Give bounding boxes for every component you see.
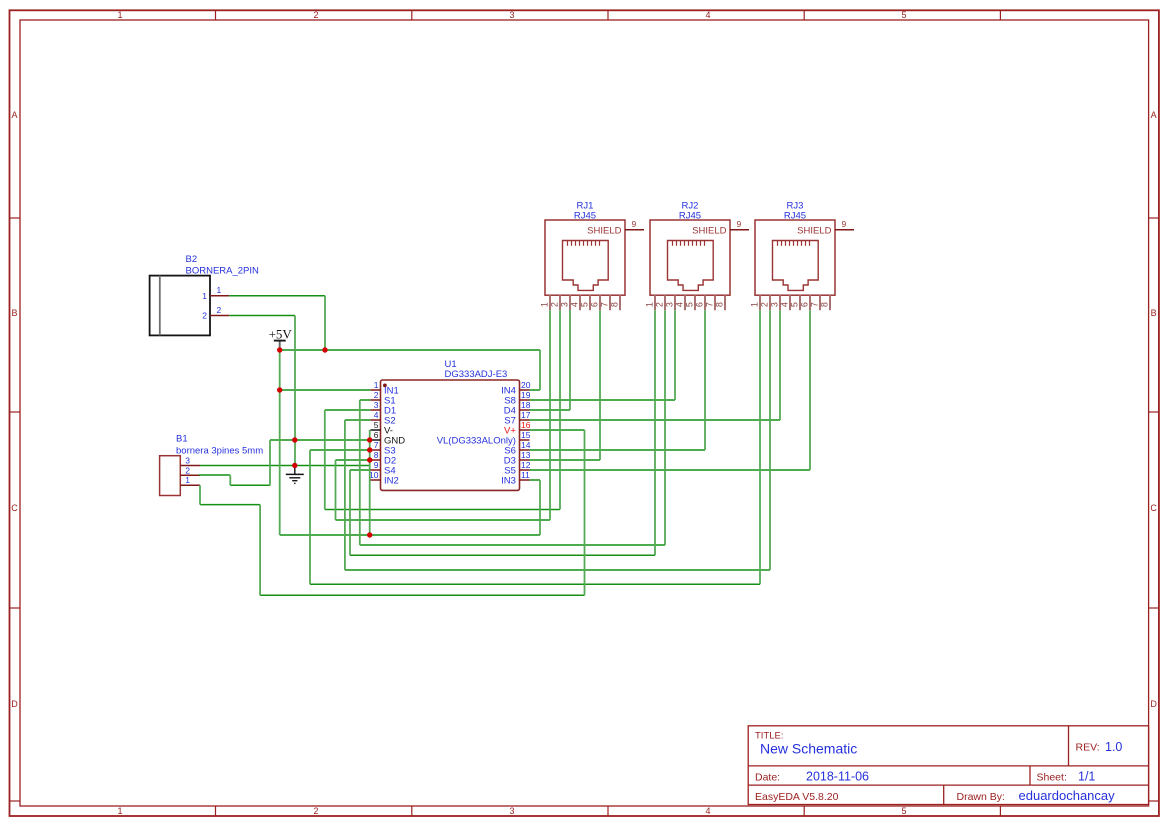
svg-text:1: 1 <box>374 380 379 390</box>
svg-text:New Schematic: New Schematic <box>760 741 857 757</box>
svg-text:D: D <box>1150 699 1157 709</box>
ground <box>286 466 304 484</box>
pin 7 (S3) of U1 <box>370 440 395 457</box>
svg-text:2: 2 <box>313 10 318 20</box>
wire <box>809 310 811 470</box>
svg-text:1: 1 <box>117 806 122 816</box>
svg-text:3: 3 <box>374 400 379 410</box>
connector RJ3 (RJ45) <box>755 220 835 295</box>
wire <box>260 594 584 596</box>
wire <box>200 504 260 506</box>
svg-text:IN3: IN3 <box>501 476 516 487</box>
svg-text:3: 3 <box>559 302 569 307</box>
connector B2 <box>150 276 210 336</box>
svg-text:6: 6 <box>374 430 379 440</box>
svg-text:IN2: IN2 <box>384 476 399 487</box>
pin 8 of RJ2 <box>714 295 725 310</box>
wire <box>530 429 585 431</box>
pin 5 of RJ1 <box>579 295 590 310</box>
svg-text:SHIELD: SHIELD <box>587 225 621 236</box>
wire <box>530 479 541 481</box>
pin 7 of RJ1 <box>599 295 610 310</box>
wire <box>530 389 541 391</box>
pin 4 of RJ1 <box>569 295 580 310</box>
svg-text:17: 17 <box>521 410 531 420</box>
pin 5 of RJ2 <box>684 295 695 310</box>
pin 14 (S6) of U1 <box>504 440 530 457</box>
wire <box>309 450 311 584</box>
svg-text:1: 1 <box>644 302 654 307</box>
svg-text:EasyEDA V5.8.20: EasyEDA V5.8.20 <box>755 791 839 803</box>
svg-text:4: 4 <box>674 302 684 307</box>
pin 2 of RJ1 <box>549 295 560 310</box>
wire <box>336 459 370 461</box>
svg-text:4: 4 <box>374 410 379 420</box>
svg-text:D: D <box>11 699 18 709</box>
svg-text:7: 7 <box>599 302 609 307</box>
wire <box>530 409 571 411</box>
svg-text:B2: B2 <box>186 254 198 265</box>
pin 7 of RJ2 <box>704 295 715 310</box>
wire <box>229 475 231 485</box>
svg-text:1: 1 <box>202 291 207 301</box>
pin 11 (IN3) of U1 <box>501 470 530 487</box>
svg-text:A: A <box>11 110 17 120</box>
pin 8 (D2) of U1 <box>370 450 396 467</box>
wire <box>200 465 370 467</box>
pin 8 of RJ3 <box>819 295 830 310</box>
svg-text:20: 20 <box>521 380 531 390</box>
svg-text:8: 8 <box>714 302 724 307</box>
svg-text:5: 5 <box>901 806 906 816</box>
wire <box>324 410 326 510</box>
svg-text:Sheet:: Sheet: <box>1037 771 1067 783</box>
pin 1 of RJ1 <box>539 295 550 310</box>
pin 6 (GND) of U1 <box>370 430 405 447</box>
wire <box>325 409 371 411</box>
svg-text:RJ45: RJ45 <box>784 210 806 221</box>
svg-text:16: 16 <box>521 420 531 430</box>
svg-text:5: 5 <box>684 302 694 307</box>
svg-text:1: 1 <box>217 285 222 295</box>
wire <box>369 430 371 535</box>
svg-text:2: 2 <box>185 465 190 475</box>
svg-text:DG333ADJ-E3: DG333ADJ-E3 <box>445 369 508 380</box>
svg-text:C: C <box>1150 503 1157 513</box>
wire <box>335 460 337 520</box>
svg-text:19: 19 <box>521 390 531 400</box>
svg-text:eduardochancay: eduardochancay <box>1019 788 1116 803</box>
wire <box>779 310 781 420</box>
pin 20 (IN4) of U1 <box>501 380 531 397</box>
wire <box>280 389 371 391</box>
svg-text:5: 5 <box>901 10 906 20</box>
svg-text:9: 9 <box>374 460 379 470</box>
wire <box>229 295 325 297</box>
wire <box>539 480 541 535</box>
pin 1 (IN1) of U1 <box>370 380 398 397</box>
wire <box>230 484 270 486</box>
pin 7 of RJ3 <box>809 295 820 310</box>
wire <box>199 485 201 504</box>
svg-text:18: 18 <box>521 400 531 410</box>
svg-text:5: 5 <box>789 302 799 307</box>
junction <box>277 387 282 392</box>
svg-text:BORNERA_2PIN: BORNERA_2PIN <box>186 265 260 276</box>
wire <box>704 310 706 450</box>
power flag +5V <box>269 327 293 350</box>
wire <box>310 583 760 585</box>
wire <box>664 310 666 545</box>
wire <box>280 534 540 536</box>
svg-text:1: 1 <box>185 475 190 485</box>
wire <box>559 310 561 509</box>
svg-text:2: 2 <box>549 302 559 307</box>
svg-text:+5V: +5V <box>269 327 293 342</box>
pin 1 of RJ2 <box>644 295 655 310</box>
svg-text:2: 2 <box>374 390 379 400</box>
svg-text:1: 1 <box>539 302 549 307</box>
svg-text:6: 6 <box>589 302 599 307</box>
svg-text:REV:: REV: <box>1076 742 1100 754</box>
wire <box>530 469 811 471</box>
svg-text:5: 5 <box>579 302 589 307</box>
svg-text:1.0: 1.0 <box>1105 740 1122 754</box>
pin 9 (SHIELD) <box>797 219 854 236</box>
wire <box>350 554 655 556</box>
svg-text:6: 6 <box>799 302 809 307</box>
wire <box>549 310 551 520</box>
junction <box>367 457 372 462</box>
junction <box>367 437 372 442</box>
connector B1 <box>160 456 181 496</box>
svg-text:7: 7 <box>704 302 714 307</box>
wire <box>530 399 676 401</box>
pin 6 of RJ3 <box>799 295 810 310</box>
svg-text:1: 1 <box>117 10 122 20</box>
svg-text:13: 13 <box>521 450 531 460</box>
wire <box>530 419 781 421</box>
wire <box>259 505 261 596</box>
wire <box>539 350 541 390</box>
svg-text:14: 14 <box>521 440 531 450</box>
wire <box>360 399 371 401</box>
pin 2 of RJ2 <box>654 295 665 310</box>
svg-text:RJ45: RJ45 <box>574 210 596 221</box>
svg-text:Date:: Date: <box>755 771 780 783</box>
wire <box>530 449 706 451</box>
wire <box>344 420 346 570</box>
svg-text:8: 8 <box>609 302 619 307</box>
wire <box>599 310 601 460</box>
svg-text:7: 7 <box>809 302 819 307</box>
pin 12 (S5) of U1 <box>504 460 530 477</box>
wire <box>280 349 540 351</box>
svg-text:11: 11 <box>521 470 530 480</box>
svg-text:A: A <box>1151 110 1157 120</box>
pin 2 of B1 <box>180 465 200 475</box>
svg-text:9: 9 <box>737 219 742 229</box>
svg-text:B1: B1 <box>176 434 188 445</box>
svg-text:2: 2 <box>202 311 207 321</box>
pin 1 of RJ3 <box>749 295 760 310</box>
pin 19 (S8) of U1 <box>504 390 530 407</box>
wire <box>199 474 231 476</box>
wire <box>759 310 761 584</box>
junction <box>322 347 327 352</box>
pin 15 (VL(DG333ALOnly)) of U1 <box>437 430 531 447</box>
svg-text:3: 3 <box>664 302 674 307</box>
svg-text:12: 12 <box>521 460 531 470</box>
svg-text:Drawn By:: Drawn By: <box>957 791 1005 803</box>
wire <box>360 544 665 546</box>
junction <box>292 437 297 442</box>
svg-text:2: 2 <box>759 302 769 307</box>
svg-text:B: B <box>1151 308 1157 318</box>
pin 6 of RJ2 <box>694 295 705 310</box>
wire <box>229 315 295 317</box>
svg-text:1: 1 <box>749 302 759 307</box>
wire <box>294 316 296 466</box>
svg-text:1/1: 1/1 <box>1078 770 1095 784</box>
pin 18 (D4) of U1 <box>504 400 531 417</box>
wire <box>359 400 361 545</box>
connector RJ2 (RJ45) <box>650 220 730 295</box>
op IC U1 DG333ADJ-E3 <box>381 380 520 490</box>
svg-text:9: 9 <box>842 219 847 229</box>
pin 2 of RJ3 <box>759 295 770 310</box>
pin 1 marker dot <box>383 384 387 388</box>
pin 2 (S1) of U1 <box>370 390 395 407</box>
wire <box>769 310 771 570</box>
wire <box>584 430 586 595</box>
pin 16 (V+) of U1 <box>504 420 531 437</box>
title block <box>748 726 1148 805</box>
pin 3 of RJ3 <box>769 295 780 310</box>
wire <box>345 569 770 571</box>
wire <box>325 509 560 511</box>
wire <box>310 449 370 451</box>
svg-text:8: 8 <box>819 302 829 307</box>
pin 9 (S4) of U1 <box>370 460 395 477</box>
svg-text:2: 2 <box>654 302 664 307</box>
pin 9 (SHIELD) <box>587 219 644 236</box>
svg-text:9: 9 <box>632 219 637 229</box>
svg-text:4: 4 <box>705 10 710 20</box>
svg-text:3: 3 <box>509 806 514 816</box>
svg-text:5: 5 <box>374 420 379 430</box>
pin 17 (S7) of U1 <box>504 410 530 427</box>
svg-text:C: C <box>11 503 18 513</box>
svg-text:3: 3 <box>185 456 190 466</box>
svg-text:4: 4 <box>705 806 710 816</box>
pin 8 of RJ1 <box>609 295 620 310</box>
svg-text:3: 3 <box>769 302 779 307</box>
wire <box>350 469 370 471</box>
svg-text:6: 6 <box>694 302 704 307</box>
junction <box>367 447 372 452</box>
wire <box>279 350 281 535</box>
wire <box>269 440 271 485</box>
svg-text:SHIELD: SHIELD <box>692 225 726 236</box>
pin 1 of B2 <box>202 285 229 301</box>
pin 13 (D3) of U1 <box>504 450 531 467</box>
wire <box>674 310 676 400</box>
pin 3 of RJ2 <box>664 295 675 310</box>
svg-text:SHIELD: SHIELD <box>797 225 831 236</box>
junction <box>367 532 372 537</box>
wire <box>270 439 370 441</box>
svg-text:4: 4 <box>569 302 579 307</box>
pin 6 of RJ1 <box>589 295 600 310</box>
pin 4 of RJ3 <box>779 295 790 310</box>
wire <box>530 459 601 461</box>
svg-text:2018-11-06: 2018-11-06 <box>806 770 869 784</box>
svg-text:8: 8 <box>374 450 379 460</box>
wire <box>654 310 656 555</box>
pin 3 (D1) of U1 <box>370 400 396 417</box>
svg-text:RJ45: RJ45 <box>679 210 701 221</box>
wire <box>324 296 326 350</box>
svg-text:B: B <box>11 308 17 318</box>
wire <box>349 470 351 555</box>
svg-text:3: 3 <box>509 10 514 20</box>
svg-text:2: 2 <box>217 305 222 315</box>
wire <box>569 310 571 410</box>
pin 10 (IN2) of U1 <box>369 470 399 487</box>
pin 5 of RJ3 <box>789 295 800 310</box>
pin 2 of B2 <box>202 305 229 321</box>
pin 9 (SHIELD) <box>692 219 749 236</box>
pin 4 of RJ2 <box>674 295 685 310</box>
wire <box>345 419 371 421</box>
pin 4 (S2) of U1 <box>370 410 395 427</box>
junction <box>277 347 282 352</box>
pin 5 (V-) of U1 <box>370 420 393 437</box>
svg-text:2: 2 <box>313 806 318 816</box>
svg-text:15: 15 <box>521 430 531 440</box>
junction <box>292 463 297 468</box>
wire <box>336 519 551 521</box>
pin 3 of B1 <box>180 456 200 466</box>
svg-text:7: 7 <box>374 440 379 450</box>
pin 1 of B1 <box>180 475 200 485</box>
connector RJ1 (RJ45) <box>545 220 625 295</box>
pin 3 of RJ1 <box>559 295 570 310</box>
svg-text:4: 4 <box>779 302 789 307</box>
